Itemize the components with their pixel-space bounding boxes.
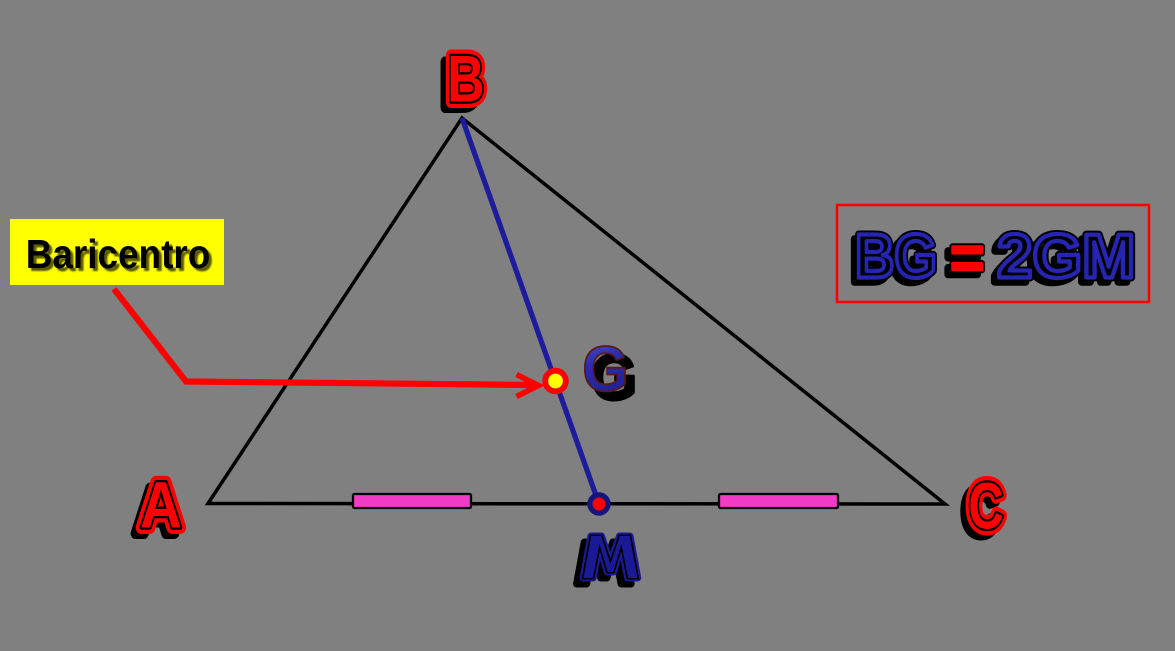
svg-text:Baricentro: Baricentro	[26, 232, 211, 277]
